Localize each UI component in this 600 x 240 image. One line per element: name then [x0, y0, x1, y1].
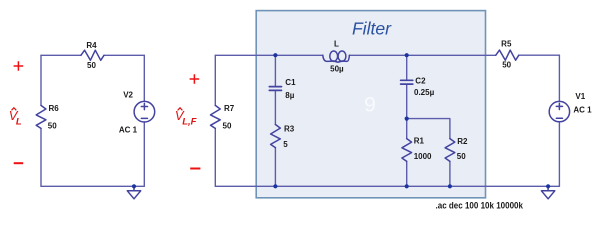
node left ground junction	[132, 184, 136, 188]
svg-text:C1: C1	[285, 78, 296, 87]
svg-text:50: 50	[457, 152, 466, 161]
svg-text:50: 50	[87, 61, 96, 70]
svg-text:R3: R3	[284, 124, 295, 133]
svg-text:V2: V2	[123, 91, 133, 100]
node C1 top junction	[273, 53, 277, 57]
svg-text:V1: V1	[575, 92, 585, 101]
svg-text:R2: R2	[457, 137, 468, 146]
wire left circuit top	[41, 54, 144, 56]
svg-text:8µ: 8µ	[285, 91, 294, 100]
svg-text:1000: 1000	[414, 152, 432, 161]
voltage source V1	[549, 101, 569, 121]
plus sign left	[14, 61, 24, 71]
svg-text:50µ: 50µ	[330, 65, 344, 74]
svg-text:0.25µ: 0.25µ	[414, 88, 435, 97]
wire C2 branch	[406, 55, 408, 118]
resistor R2	[445, 139, 455, 162]
wire filter bottom	[215, 185, 559, 187]
svg-text:Filter: Filter	[352, 18, 392, 38]
node R1 R2 junction	[405, 117, 409, 121]
wire filter top	[215, 54, 559, 56]
svg-text:50: 50	[502, 61, 511, 70]
wire filter R7 branch	[214, 55, 216, 186]
svg-text:9: 9	[364, 94, 376, 117]
wire left circuit right	[143, 55, 145, 186]
resistor R1	[402, 139, 412, 162]
svg-text:AC 1: AC 1	[119, 126, 138, 135]
ground right	[541, 186, 554, 199]
resistor R4	[81, 50, 104, 60]
svg-text:AC 1: AC 1	[573, 105, 592, 114]
capacitor C1	[269, 87, 281, 91]
wire left circuit bottom	[41, 185, 144, 187]
resistor R5	[496, 50, 519, 60]
svg-text:R5: R5	[501, 39, 512, 48]
svg-text:L: L	[16, 116, 22, 127]
resistor R3	[271, 125, 281, 148]
svg-text:L: L	[334, 39, 339, 48]
node R1 bottom junction	[405, 184, 409, 188]
svg-text:L,F: L,F	[182, 117, 196, 128]
svg-text:R6: R6	[49, 104, 60, 113]
plus sign right	[190, 74, 200, 84]
filter box	[256, 11, 485, 198]
voltage source V2	[134, 101, 155, 122]
svg-text:50: 50	[223, 121, 232, 130]
svg-text:50: 50	[48, 121, 57, 130]
ground left	[127, 186, 140, 199]
node R2 bottom junction	[448, 184, 452, 188]
wire filter right	[558, 55, 560, 186]
wire R1 R2 branch	[407, 119, 450, 187]
svg-text:R4: R4	[86, 41, 97, 50]
resistor R6	[36, 105, 46, 128]
minus sign left	[14, 162, 24, 164]
svg-text:5: 5	[283, 140, 288, 149]
node C2 top junction	[405, 53, 409, 57]
svg-text:R7: R7	[224, 104, 235, 113]
resistor R7	[211, 105, 221, 128]
svg-text:R1: R1	[414, 137, 425, 146]
capacitor C2	[401, 80, 413, 84]
wire C1 R3 branch	[274, 55, 276, 186]
inductor L	[323, 55, 350, 62]
minus sign right	[190, 168, 200, 170]
wire left circuit left	[40, 55, 42, 186]
svg-text:.ac dec 100 10k 10000k: .ac dec 100 10k 10000k	[436, 201, 524, 212]
node right ground junction	[546, 184, 550, 188]
node R3 bottom junction	[273, 184, 277, 188]
svg-text:C2: C2	[415, 76, 426, 85]
